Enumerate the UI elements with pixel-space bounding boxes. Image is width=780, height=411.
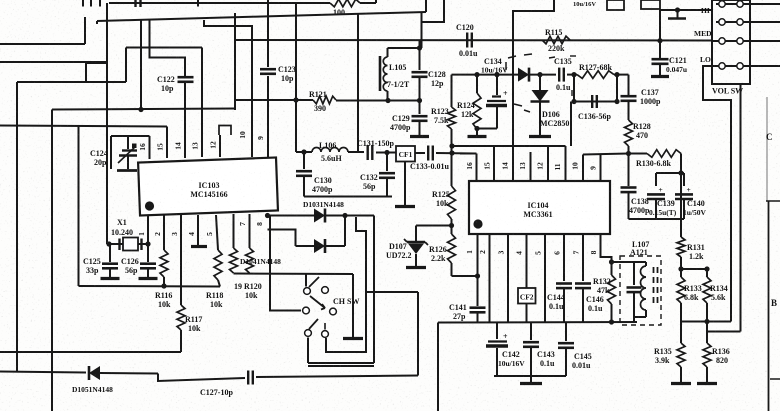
wire W322 rail: [438, 321, 637, 324]
node pin8-R132: [609, 259, 614, 264]
node top: [675, 7, 680, 12]
IC103 pin 4 to ground: [197, 215, 199, 245]
wire C127 net: [158, 374, 245, 382]
resistor R117: [177, 305, 185, 330]
resistor R124: [476, 75, 478, 93]
wire pins9/10: [583, 154, 629, 155]
IC103 pin 16: [149, 136, 151, 159]
wire W274: [234, 273, 354, 276]
wire pin9 line with C123: [267, 0, 269, 67]
wire varactor feed: [452, 74, 519, 76]
IC103 pin 13: [201, 48, 203, 158]
capacitor C145: [565, 322, 567, 341]
capacitor C120: [466, 33, 468, 48]
wire vertical x52: [51, 110, 53, 411]
switch CH SW: [304, 288, 311, 295]
section divider: [766, 200, 780, 202]
inductor L106 5.6uH: [296, 151, 312, 153]
capacitor C138: [628, 154, 630, 187]
wire W285: [79, 285, 221, 288]
node M-C121: [657, 38, 662, 43]
wire R121 net: [235, 99, 313, 101]
VOL SW row LO: [712, 65, 780, 67]
section line C: [766, 97, 768, 201]
resistor R119: [230, 248, 238, 273]
wire crystal feed vertical: [106, 3, 108, 244]
connector stub: [82, 0, 84, 7]
wire W47 to pin13: [126, 47, 202, 49]
IC103 pin 6: [233, 214, 235, 248]
IC104 pin 2: [489, 234, 491, 322]
IC103 pin 5: [216, 215, 218, 250]
wire vol lo rail: [681, 321, 731, 323]
wire W125 to pin15: [0, 126, 167, 127]
IC103 pin 1: [147, 215, 149, 244]
IC103 pin 15: [166, 127, 168, 159]
node L105 bottom: [385, 98, 390, 103]
resistor R116: [160, 250, 168, 277]
resistor R125: [451, 153, 453, 186]
resistor R134: [706, 269, 708, 277]
resistor R115: [542, 36, 570, 44]
wire W352 R117 bottom: [0, 351, 181, 353]
scan grain overlay: [0, 0, 1, 1]
resistor R130-6.8k: [647, 150, 681, 158]
connector stub bar: [677, 10, 679, 18]
wire zener rail: [416, 225, 452, 227]
resistor R132: [611, 262, 613, 275]
node R127 right: [614, 72, 619, 77]
IC104 pin1 mark: [473, 219, 482, 228]
connector stub: [99, 0, 101, 7]
diode D103 1N4148: [268, 215, 315, 217]
node C128 top: [417, 45, 422, 50]
ground R124/C134: [476, 129, 478, 135]
wire switch common: [366, 291, 418, 293]
resistor R133: [680, 269, 682, 277]
IC104 pin 5: [544, 234, 546, 322]
diode D104 1N4148: [268, 230, 296, 247]
connector stub: [90, 0, 92, 7]
capacitor C130: [303, 152, 305, 169]
connector stub: [197, 0, 199, 7]
capacitor C122: [178, 76, 194, 79]
wire riser to H2: [84, 17, 86, 44]
capacitor C137: [617, 74, 629, 76]
resistor R126: [451, 226, 453, 235]
switch VOL SW box: [712, 0, 750, 84]
IC103 pin 3: [180, 215, 182, 305]
resistor R136: [706, 332, 708, 344]
IC104 pin 8: [601, 234, 612, 262]
resistor 100: [330, 0, 360, 7]
wire H1 top bus: [109, 2, 330, 4]
IC104 pin 7 / C146: [582, 234, 584, 281]
resistor R127-68k: [577, 71, 614, 79]
resistor R123: [448, 107, 456, 129]
node R130 right: [680, 154, 682, 174]
wire M riser from H2: [234, 13, 236, 110]
wire jog crystal-W82: [86, 63, 107, 82]
IC104 pin 3: [507, 234, 509, 322]
wire W62: [0, 61, 107, 63]
wire vol med rail: [707, 331, 741, 333]
wire C121 vertical: [659, 9, 661, 58]
capacitor C131-150p: [367, 145, 369, 160]
capacitor C140 electrolytic: [683, 173, 685, 186]
wire riser x438: [437, 323, 439, 411]
node R127 left: [571, 72, 576, 77]
capacitor C141: [470, 306, 486, 309]
capacitor C128: [419, 40, 421, 70]
capacitor C133-0.01u: [415, 152, 425, 154]
capacitor C134 electrolytic: [496, 75, 498, 95]
wire top elbow x444: [422, 0, 445, 22]
wire switch underline: [308, 365, 374, 367]
node W125-x78: [78, 126, 80, 287]
resistor R131: [680, 173, 682, 237]
component box (edge): [641, 0, 660, 9]
wire R133/R134 top rail: [681, 268, 707, 270]
wire R126 to pin1: [452, 275, 478, 277]
ground CH SW: [352, 274, 354, 337]
trimmer capacitor C124: [111, 135, 150, 137]
capacitor C139 electrolytic: [655, 173, 657, 186]
node R125 bottom: [449, 223, 454, 228]
capacitor C123: [260, 68, 276, 71]
IC103 MC145166: [138, 157, 278, 215]
capacitor C135: [558, 68, 560, 82]
capacitor C132: [386, 153, 388, 172]
wire W44: [0, 43, 85, 45]
diode D106b: [539, 75, 541, 90]
resistor R135: [680, 322, 682, 344]
IC103 pin 14: [184, 82, 186, 158]
wire MED feed down: [740, 84, 742, 332]
wire pin14 feed: [150, 21, 186, 78]
resistor R128: [625, 120, 633, 146]
wire D103 net to switch: [373, 216, 375, 364]
IC104 MC3361: [469, 181, 610, 234]
VOL SW row 2: [716, 21, 780, 23]
capacitor C125: [109, 244, 111, 262]
capacitor (series, top edge): [134, 0, 136, 7]
node R126-pin1: [475, 273, 480, 278]
ceramic filter CF1: [396, 146, 415, 162]
wire riser x17: [16, 82, 18, 372]
resistor R120: [246, 248, 254, 273]
wire cap top rail: [656, 172, 684, 174]
wire W1: [52, 109, 235, 110]
wire pin8 net to switch: [270, 216, 301, 311]
wire ground rail: [494, 375, 566, 377]
node C133-R125: [449, 150, 454, 155]
VOL SW row HI: [716, 3, 780, 5]
crystal X1 10.240: [107, 243, 148, 245]
IC103 pin 7: [249, 214, 251, 248]
diode D105 1N4148: [0, 372, 86, 373]
IC103 pin1 mark: [145, 201, 154, 210]
IC103 pin 2: [163, 215, 165, 250]
capacitor C142 electrolytic: [496, 322, 498, 339]
zener diode D107 UD72.2: [415, 226, 417, 242]
wire R121 to C129 node: [336, 100, 420, 102]
wire C136 node to pin11: [570, 102, 572, 147]
wire riser x126: [125, 48, 127, 83]
IC103 pin 8: [267, 213, 269, 218]
wire vertical x141: [140, 20, 142, 110]
wire D104 net to switch: [326, 217, 366, 352]
capacitor C121: [652, 58, 669, 61]
VOL SW row MED: [712, 40, 780, 42]
wire riser x358 from H2: [357, 13, 359, 152]
diode D106a: [518, 68, 529, 82]
wire H2 bus: [97, 12, 426, 21]
stub: [770, 378, 780, 380]
node C129 top: [417, 98, 422, 103]
wire bias to pin11: [452, 145, 566, 147]
IC103 pin 12 with stub box: [219, 135, 221, 157]
resistor R121: [313, 96, 336, 104]
wire W274 to switch: [305, 274, 307, 287]
capacitor C127-10p: [247, 371, 249, 385]
ground CF1: [404, 162, 406, 206]
wire D106 elbow to pin14: [513, 0, 554, 181]
wire tank bottom: [304, 196, 392, 198]
wire M main horizontal: [235, 39, 712, 42]
node R121 left: [293, 97, 298, 102]
ground D106: [529, 135, 551, 138]
wire L106 feed vertical: [295, 4, 297, 152]
node W1-x141: [138, 107, 143, 112]
D106 package dashes: [508, 56, 516, 58]
wire pin10 feed: [204, 20, 252, 157]
capacitor C126: [147, 244, 149, 262]
wire riser C127: [417, 292, 419, 376]
inductor L107 A121: [612, 261, 647, 263]
inductor L105 7-1/2T: [388, 47, 420, 49]
node R128 bottom: [626, 151, 631, 156]
capacitor C136-56p loop: [573, 75, 575, 102]
capacitor C143: [530, 322, 532, 340]
wire W82: [17, 81, 126, 83]
capacitor C129: [419, 101, 421, 115]
IC104 pin 1 / C141: [477, 234, 479, 306]
ground bottom: [530, 376, 532, 382]
IC104 pin 4 / CF2: [526, 234, 528, 288]
IC104 pin 6 / C144: [563, 234, 565, 281]
wire cap bottom rail: [629, 218, 685, 220]
resistor R118: [214, 250, 222, 280]
wire LO feed down: [703, 66, 731, 322]
